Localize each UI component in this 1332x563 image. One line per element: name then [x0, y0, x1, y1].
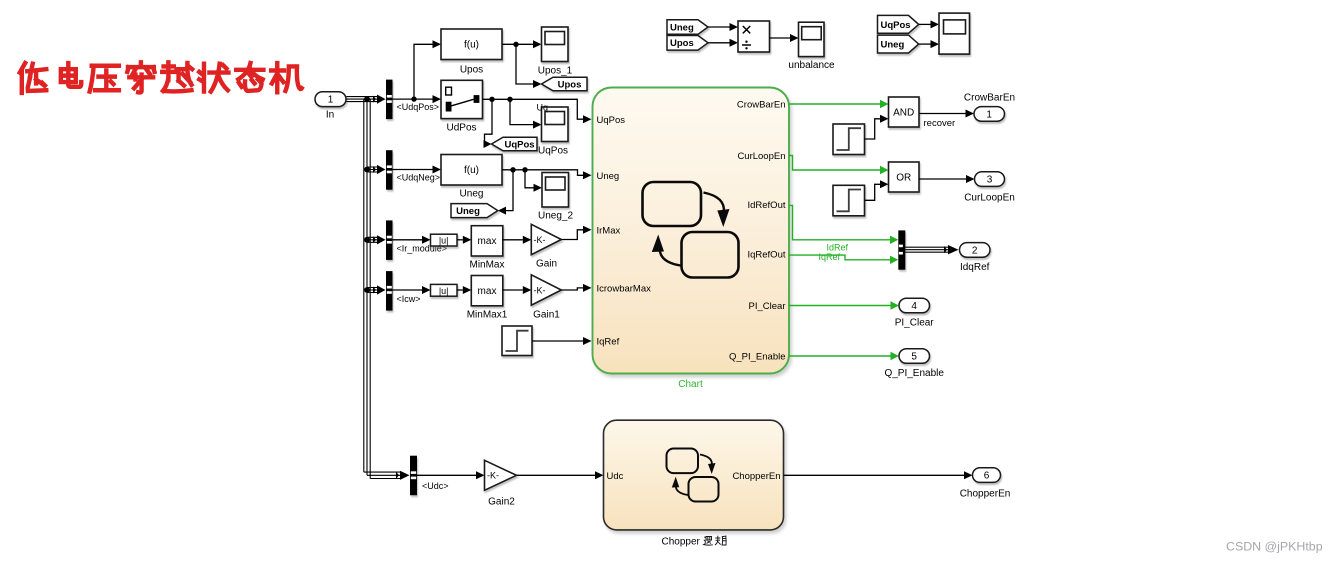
- svg-text:UqPos: UqPos: [597, 115, 626, 126]
- wire Gain1 to chart IcrowbarMax: [561, 288, 583, 290]
- title char 态: [236, 63, 263, 91]
- svg-text:3: 3: [987, 175, 993, 186]
- svg-text:PI_Clear: PI_Clear: [895, 318, 935, 329]
- arrowhead into AND input 2: [880, 115, 889, 123]
- wire abs2 to MinMax1: [457, 289, 463, 291]
- node Uneg out 1: [510, 167, 515, 172]
- svg-text:AND: AND: [893, 108, 914, 119]
- svg-text:-K-: -K-: [534, 285, 546, 295]
- svg-text:Uneg: Uneg: [456, 206, 480, 217]
- green wire chart CurLoopEn to OR: [789, 156, 880, 171]
- arrowhead into outport 3: [966, 175, 975, 183]
- arrowhead into outport 1: [966, 110, 975, 118]
- arrowhead into scope UqPos: [533, 121, 542, 129]
- scope Upos_1: [542, 27, 569, 62]
- arrowhead into f(u) Uneg: [433, 166, 442, 174]
- arrowhead into abs2: [422, 286, 431, 294]
- wire selector1 to UdPos with branch up to f(u) Upos: [393, 44, 433, 99]
- green wire chart CrowBarEn to AND: [789, 103, 880, 105]
- bus arrowhead into selector 5 (Udc): [396, 471, 410, 480]
- svg-text:ChopperEn: ChopperEn: [960, 489, 1011, 500]
- title char 压: [90, 66, 119, 92]
- svg-text:f(u): f(u): [464, 40, 479, 51]
- svg-text:Q_PI_Enable: Q_PI_Enable: [884, 368, 944, 379]
- svg-text:CSDN @jPKHtbp: CSDN @jPKHtbp: [1226, 540, 1323, 554]
- wire branch to goto Uneg: [506, 170, 513, 211]
- arrowhead into chart IqRef: [583, 337, 592, 345]
- Fcn block Uneg f(u): [441, 155, 502, 186]
- bus selector bar 1 (UdqPos): [386, 80, 393, 120]
- svg-text:Upos: Upos: [460, 65, 483, 76]
- bus arrowhead into selector 4: [373, 285, 386, 294]
- wire OR to outport 3: [919, 178, 966, 180]
- svg-text:OR: OR: [896, 173, 911, 184]
- wire Gain2 to chopper chart: [517, 474, 596, 476]
- wire Gain to chart IrMax: [561, 230, 583, 240]
- arrowhead into scope Uneg_2: [534, 184, 543, 192]
- step source block 1 (recover): [833, 124, 865, 155]
- wire Uneg tag to scope2: [919, 43, 931, 45]
- arrowhead into scope unbalance: [790, 34, 799, 42]
- goto tag Upos: [542, 77, 588, 91]
- svg-text:CrowBarEn: CrowBarEn: [737, 100, 786, 111]
- vertical bus trunk wire: [364, 99, 400, 478]
- svg-text:CurLoopEn: CurLoopEn: [964, 193, 1015, 204]
- wire branch to goto UqPos: [485, 99, 493, 144]
- green arrowhead into AND input 1: [880, 100, 889, 108]
- svg-text:1: 1: [328, 95, 334, 106]
- wire UqPos tag to scope2: [919, 23, 931, 25]
- svg-text:-K-: -K-: [534, 235, 546, 245]
- arrowhead into chart Uneg: [583, 171, 592, 179]
- svg-text:CurLoopEn: CurLoopEn: [737, 151, 785, 162]
- bus wire to outport 2: [905, 247, 948, 252]
- arrowhead into product input 1: [730, 23, 739, 31]
- svg-text:PI_Clear: PI_Clear: [749, 301, 786, 312]
- wire step to chart IqRef: [532, 340, 583, 342]
- step source block for IqRef: [502, 326, 532, 356]
- bus selector bar 4 (Icw): [386, 271, 393, 311]
- bus selector bar 5 (Udc): [410, 456, 417, 496]
- bus creator bar: [898, 230, 905, 269]
- arrowhead into Gain: [523, 236, 532, 244]
- svg-text:UqPos: UqPos: [504, 139, 534, 150]
- svg-text:|u|: |u|: [439, 236, 449, 246]
- wire abs1 to MinMax: [457, 239, 463, 241]
- svg-text:<UdqNeg>: <UdqNeg>: [397, 173, 441, 183]
- from tag Uneg (top right): [878, 35, 919, 53]
- scope UqPos: [542, 107, 569, 142]
- arrowhead into Gain1: [523, 286, 532, 294]
- outport 6 ChopperEn: [973, 468, 1001, 483]
- goto tag Uneg: [451, 204, 498, 218]
- green wire chart IqRefOut to bus creator: [789, 255, 890, 260]
- title char 低: [20, 63, 47, 93]
- svg-text:Upos: Upos: [670, 38, 694, 49]
- arrowhead into outport 6: [964, 471, 973, 479]
- abs block |u|: [431, 234, 458, 246]
- gain block Gain1: [531, 275, 561, 305]
- gain block Gain: [531, 224, 561, 254]
- svg-text:max: max: [478, 236, 497, 247]
- svg-text:5: 5: [911, 351, 917, 362]
- node Uneg out 2: [522, 167, 527, 172]
- title char 机: [271, 63, 302, 92]
- arrowhead into goto Uneg: [498, 207, 506, 215]
- svg-text:IcrowbarMax: IcrowbarMax: [597, 284, 652, 295]
- chopper state A: [667, 449, 699, 474]
- svg-text:<Icw>: <Icw>: [397, 294, 421, 304]
- product block (divide): [738, 21, 770, 52]
- svg-text:Uneg_2: Uneg_2: [538, 211, 573, 222]
- svg-text:Gain2: Gain2: [488, 497, 515, 508]
- input port In 1: [315, 92, 346, 107]
- svg-text:IqRef: IqRef: [597, 337, 620, 348]
- svg-text:MinMax1: MinMax1: [467, 310, 508, 321]
- svg-text:Uneg: Uneg: [597, 171, 620, 182]
- arrowhead into chart UqPos: [583, 115, 592, 123]
- svg-text:<UdqPos>: <UdqPos>: [397, 102, 440, 112]
- wire step1 to AND input 2: [865, 119, 881, 139]
- chart transition arrow right: [704, 193, 724, 213]
- arrowhead into scope2 input 2: [931, 40, 940, 48]
- bus branch wire to Ir_module selector: [367, 237, 377, 242]
- title 低电压穿越状态机 (red heading): [20, 62, 302, 93]
- wire chopper to outport 6: [784, 474, 965, 476]
- arrowhead into OR input 2: [880, 180, 889, 188]
- arrowhead into scope2 input 1: [931, 20, 940, 28]
- svg-text:Uneg: Uneg: [881, 40, 905, 51]
- wire MinMax1 to Gain1: [503, 289, 523, 291]
- svg-text:IdqRef: IdqRef: [960, 262, 990, 273]
- svg-text:UqPos: UqPos: [881, 20, 911, 31]
- wire selector3 to abs1: [393, 239, 423, 241]
- green arrowhead into bus creator input 2: [890, 256, 898, 264]
- node after Upos: [513, 42, 518, 47]
- chopper transition arrow left: [676, 485, 688, 495]
- svg-text:IrMax: IrMax: [597, 225, 621, 236]
- title char 状: [199, 64, 228, 92]
- wire Uneg to chart Uneg input: [502, 170, 583, 176]
- wire UdPos to chart UqPos input: [483, 99, 584, 119]
- svg-text:max: max: [478, 286, 497, 297]
- svg-text:unbalance: unbalance: [788, 60, 835, 71]
- wire product to scope unbalance: [770, 37, 791, 39]
- svg-text:Upos: Upos: [558, 79, 582, 90]
- svg-text:6: 6: [984, 471, 990, 482]
- bus selector bar 2 (UdqNeg): [386, 150, 393, 190]
- wire AND to outport 1: [919, 113, 966, 115]
- scope Uneg_2: [542, 173, 569, 208]
- svg-text:1: 1: [986, 109, 992, 120]
- bus wire from In to bus column: [347, 97, 378, 102]
- bus branch wire to UdqNeg selector: [367, 167, 377, 172]
- svg-text:IdRefOut: IdRefOut: [747, 200, 785, 211]
- wire branch to scope UqPos: [510, 99, 533, 124]
- wire Upos f(u) to scope Upos_1: [502, 44, 533, 84]
- arrowhead into f(u) Upos: [433, 40, 442, 48]
- svg-text:Uneg: Uneg: [460, 189, 484, 200]
- svg-text:-K-: -K-: [487, 471, 499, 481]
- svg-text:CrowBarEn: CrowBarEn: [964, 93, 1015, 104]
- outport 3 CurLoopEn: [975, 172, 1005, 187]
- svg-text:Chopper: Chopper: [662, 537, 701, 548]
- wire selector4 to abs2: [393, 289, 423, 291]
- goto tag UqPos: [492, 137, 538, 151]
- svg-text:4: 4: [911, 301, 917, 312]
- chopper state B: [689, 477, 719, 502]
- svg-text:UqPos: UqPos: [538, 146, 568, 157]
- green arrowhead into bus creator input 1: [890, 236, 898, 244]
- bus arrowhead into selector 1: [373, 95, 386, 104]
- svg-text:MinMax: MinMax: [469, 260, 504, 271]
- bus arrowhead into outport 2: [944, 245, 959, 254]
- wire step2 to OR input 2: [865, 184, 881, 200]
- node UdPos out 2: [507, 97, 512, 102]
- green wire chart IdRefOut to bus creator: [789, 205, 890, 239]
- from tag Upos (top middle): [667, 36, 708, 51]
- chart block Chopper logic: [604, 420, 784, 530]
- title char 越: [162, 62, 192, 91]
- arrowhead into MinMax1: [463, 286, 472, 294]
- svg-text:Gain1: Gain1: [533, 310, 560, 321]
- scope (top right, two inputs): [939, 13, 970, 54]
- bus arrowhead into selector 2: [373, 165, 386, 174]
- chopper transition arrow right: [700, 455, 712, 466]
- svg-text:Q_PI_Enable: Q_PI_Enable: [729, 352, 786, 363]
- green arrowhead into OR input 1: [880, 166, 889, 174]
- wire selector2 to f(u) Uneg: [393, 169, 433, 171]
- minmax block MinMax: [471, 226, 503, 256]
- svg-text:Gain: Gain: [536, 259, 557, 270]
- from tag Uneg (top middle): [667, 20, 708, 35]
- gain block Gain2: [485, 460, 517, 490]
- logic block OR: [889, 162, 920, 192]
- svg-text:f(u): f(u): [464, 165, 479, 176]
- minmax block MinMax1: [471, 276, 503, 306]
- chart block Chart (stateflow): [593, 88, 790, 374]
- chart state 1: [643, 182, 702, 226]
- abs block |u| 2: [431, 284, 458, 296]
- svg-text:|u|: |u|: [439, 286, 449, 296]
- arrowhead into chart IcrowbarMax: [583, 284, 592, 292]
- manual switch block UdPos: [441, 80, 483, 118]
- arrowhead into scope Upos_1: [533, 40, 542, 48]
- arrowhead into chart IrMax: [583, 226, 592, 234]
- wire branch to scope Uneg_2: [525, 170, 534, 188]
- outport 5 Q_PI_Enable: [899, 349, 930, 364]
- arrowhead into chopper Udc: [595, 471, 604, 479]
- Fcn block Upos f(u): [441, 29, 502, 60]
- wire Upos tag to product: [708, 42, 730, 44]
- arrowhead into goto Upos: [533, 80, 542, 88]
- node UdPos out 1: [489, 97, 494, 102]
- chart transition arrow left: [660, 247, 681, 266]
- svg-text:In: In: [326, 110, 334, 121]
- bus junction node at input: [364, 96, 370, 102]
- label Chopper logic: [662, 536, 727, 548]
- svg-text:Uneg: Uneg: [670, 23, 694, 34]
- bus branch wire to Icw selector: [367, 288, 377, 293]
- title char 穿: [127, 62, 154, 92]
- arrowhead into abs1: [422, 236, 431, 244]
- svg-text:IqRefOut: IqRefOut: [747, 250, 785, 261]
- wire Uneg tag to product: [708, 26, 730, 28]
- scope unbalance: [799, 22, 825, 56]
- wire MinMax to Gain: [503, 239, 523, 241]
- bus selector bar 3 (Ir_module): [386, 220, 393, 260]
- svg-text:Uq: Uq: [537, 103, 549, 113]
- bus arrowhead into selector 3: [373, 235, 386, 244]
- svg-text:<Udc>: <Udc>: [422, 481, 449, 491]
- arrowhead into MinMax: [463, 236, 472, 244]
- svg-text:2: 2: [972, 245, 978, 256]
- from tag UqPos (top right): [878, 15, 919, 33]
- svg-text:ChopperEn: ChopperEn: [732, 471, 780, 482]
- svg-text:Udc: Udc: [607, 471, 624, 482]
- arrowhead into UdPos: [433, 95, 442, 103]
- svg-text:UdPos: UdPos: [446, 123, 476, 134]
- outport 1 CrowBarEn: [974, 107, 1005, 122]
- svg-text:recover: recover: [924, 118, 956, 129]
- node branch to Upos: [411, 96, 416, 101]
- arrowhead into Gain2: [476, 471, 485, 479]
- outport 4 PI_Clear: [899, 298, 930, 313]
- arrowhead into product input 2: [730, 39, 739, 47]
- step source block 2: [833, 185, 865, 216]
- chart state 2: [682, 232, 739, 278]
- wire selector5 to Gain2: [417, 474, 476, 476]
- green arrowhead into outport 4: [891, 301, 900, 309]
- green arrowhead into outport 5: [891, 352, 900, 360]
- green wire chart PI_Clear to outport 4: [789, 305, 891, 307]
- outport 2 IdqRef: [960, 243, 991, 258]
- green wire chart Q_PI_Enable to outport 5: [789, 355, 891, 357]
- svg-text:IdRef: IdRef: [827, 243, 849, 253]
- logic block AND: [889, 97, 920, 127]
- title char 电: [61, 63, 81, 87]
- svg-text:IqRef: IqRef: [819, 252, 841, 262]
- arrowhead into goto UqPos: [484, 140, 492, 148]
- svg-text:Upos_1: Upos_1: [538, 66, 573, 77]
- svg-text:Chart: Chart: [678, 379, 703, 390]
